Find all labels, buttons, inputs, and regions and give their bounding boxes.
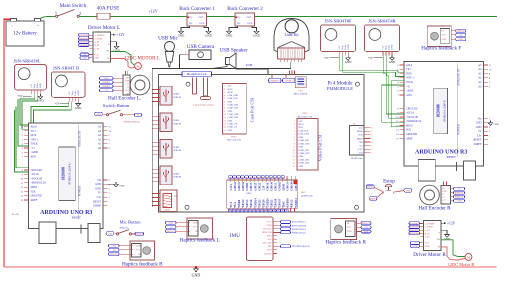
connector USB0 port (152, 86, 181, 105)
svg-text:5: 5 (294, 134, 295, 136)
svg-text:SCL0: SCL0 (228, 89, 233, 91)
chip ATMEGA328P of ARDUINO UNO R3 left (59, 147, 76, 201)
svg-text:Haptics feedback R: Haptics feedback R (325, 239, 366, 246)
wire +12V rail (green) (47, 15, 55, 17)
svg-text:IOR(B1D): IOR(B1D) (79, 37, 88, 40)
svg-text:GND: GND (389, 60, 396, 64)
svg-text:JSN-SR04T#R: JSN-SR04T#R (368, 19, 397, 24)
svg-text:Main Switch: Main Switch (60, 3, 87, 9)
ground under Buck Converter 1 left (178, 29, 185, 38)
net label IOR(B1) at Hall Encoder L. (100, 81, 114, 84)
ground symbol (389, 56, 396, 65)
svg-text:+5V: +5V (17, 94, 23, 98)
net label IOR pin 3 (79, 44, 90, 47)
svg-text:GND: GND (111, 246, 116, 248)
svg-text:Ma: Ma (106, 51, 109, 53)
svg-text:GND: GND (119, 184, 124, 187)
svg-text:GPI10: GPI10 (266, 182, 269, 190)
svg-text:10: 10 (224, 114, 226, 116)
svg-text:Buck Converter 2: Buck Converter 2 (227, 7, 263, 12)
svg-text:2: 2 (224, 89, 225, 91)
connector RJ45 ethernet (152, 190, 178, 212)
svg-text:CAM1_CP: CAM1_CP (228, 126, 238, 129)
ground at ARDUINO UNO R3 left power pins (108, 183, 117, 185)
net label GND at Hall Encoder R (454, 199, 465, 202)
svg-text:13: 13 (293, 159, 295, 161)
svg-text:GPI23: GPI23 (258, 199, 261, 207)
svg-text:1820688: 1820688 (62, 167, 66, 180)
svg-text:~AIN0: ~AIN0 (406, 90, 414, 93)
svg-text:+: + (37, 24, 39, 28)
svg-text:7: 7 (224, 105, 225, 107)
svg-text:GND: GND (345, 60, 352, 64)
connector power jack of ARDUINO UNO R3 left (88, 224, 100, 243)
svg-text:GND: GND (299, 166, 304, 168)
svg-text:GND: GND (299, 137, 304, 139)
svg-text:IOR(B0D): IOR(B0D) (410, 222, 419, 225)
svg-text:~T1: ~T1 (406, 85, 411, 88)
net label +7V (80, 53, 89, 56)
net label IOR pin 0 (409, 222, 420, 225)
svg-text:PI4MODULE: PI4MODULE (327, 86, 353, 91)
module Buck Converter 1 (179, 7, 215, 29)
svg-text:RER +=: RER += (246, 193, 254, 195)
svg-text:CAM_CLK: CAM_CLK (228, 97, 238, 100)
ground at ARDUINO UNO R3 right power pins (488, 122, 491, 124)
svg-text:1: 1 (55, 10, 57, 15)
svg-text:GND: GND (413, 246, 418, 248)
chip ATMEGA328P of ARDUINO UNO R3 right (434, 88, 448, 134)
wire mic to USB bus (168, 67, 170, 69)
motor 12DC MOTOR L (124, 57, 159, 70)
svg-text:POWER: POWER (78, 186, 82, 197)
svg-text:A_PWRM+: A_PWRM+ (425, 222, 436, 225)
svg-text:CAM1_DN3: CAM1_DN3 (299, 142, 310, 145)
svg-text:GND&Micro: GND&Micro (270, 80, 280, 82)
switch button contacts (103, 110, 135, 116)
svg-text:+5V: +5V (112, 250, 116, 252)
svg-text:GND: GND (457, 201, 462, 203)
svg-text:3.3v: 3.3v (477, 134, 482, 137)
net label at Switch Button right (135, 113, 142, 116)
svg-text:CAM1_DN1: CAM1_DN1 (228, 104, 239, 107)
net label IOR(B2) at Hall Encoder L. (100, 85, 114, 88)
ARDUINO UNO R3 right digital pins left (395, 64, 422, 140)
svg-text:1820688: 1820688 (437, 104, 441, 117)
wire driver L to motor (green) (111, 52, 135, 66)
svg-text:C2: C2 (442, 197, 444, 199)
svg-text:CAM_GP10: CAM_GP10 (299, 133, 310, 136)
svg-text:GND: GND (425, 246, 430, 248)
svg-text:GND: GND (494, 123, 499, 126)
svg-text:TX->: TX-> (31, 130, 37, 133)
fuse 40A FUSE (94, 6, 119, 20)
svg-text:~SS/OC1B: ~SS/OC1B (31, 177, 43, 180)
svg-text:GND: GND (364, 231, 369, 233)
svg-text:GND: GND (253, 34, 260, 38)
svg-text:15: 15 (293, 166, 295, 168)
encoder Hall Encoder R (420, 185, 440, 205)
svg-text:GND34: GND34 (295, 198, 298, 208)
svg-text:GND: GND (444, 237, 451, 241)
connector USB1 port (152, 113, 181, 132)
svg-text:GND: GND (82, 58, 87, 60)
svg-text:5V-2: 5V-2 (230, 201, 233, 207)
net label P9/3.3V(Pin1) at IMU (273, 220, 306, 223)
svg-text:VCC: VCC (442, 35, 447, 37)
junction GND bus dot (195, 266, 197, 268)
svg-text:T0/CK: T0/CK (31, 143, 38, 146)
svg-text:GPI12: GPI12 (291, 199, 294, 207)
svg-text:FSIA: FSIA (267, 235, 272, 238)
svg-text:3.3V1: 3.3V1 (230, 183, 233, 191)
svg-text:VCC: VCC (193, 227, 198, 229)
svg-text:↓: ↓ (281, 45, 282, 48)
svg-text:+5V: +5V (364, 227, 368, 229)
Hall Encoder R stubs to Arduino (444, 182, 447, 186)
net label IOR pin 1 (79, 37, 90, 40)
svg-text:GND: GND (267, 225, 272, 227)
svg-text:Haptics feedback F: Haptics feedback F (421, 45, 461, 52)
Hall Encoder R pin box (441, 186, 451, 206)
wire speaker to bus (211, 65, 227, 69)
connector SPI J2 header (350, 123, 373, 160)
ARDUINO UNO R3 right partition line (456, 63, 458, 157)
label Headphone jack (182, 72, 212, 77)
svg-text:GND14: GND14 (254, 198, 257, 208)
svg-text:4: 4 (224, 95, 225, 97)
svg-text:T0/CK: T0/CK (406, 81, 413, 84)
svg-text:8: 8 (224, 108, 225, 110)
net label +5V at Haptics feedback B (109, 248, 120, 251)
svg-text:IOR(B12): IOR(B12) (455, 196, 464, 199)
net label P9/GPIO15(Pin11) at IMU (273, 245, 310, 248)
svg-text:IOR(B1D): IOR(B1D) (410, 226, 419, 229)
svg-text:GND: GND (104, 78, 109, 80)
svg-text:+5V&Micro: +5V&Micro (284, 80, 294, 82)
net label IOR(B05) at Estop (369, 197, 378, 201)
net label IOR(A4) at Haptics feedback F (456, 29, 466, 32)
svg-text:GND: GND (37, 99, 44, 103)
net label +5V at Hall Encoder L. (100, 89, 114, 92)
svg-text:M: M (438, 246, 440, 248)
svg-text:GND: GND (299, 147, 304, 149)
svg-text:1: 1 (372, 152, 373, 154)
svg-text:AREF: AREF (31, 199, 38, 202)
svg-text:VCC: VCC (125, 90, 130, 92)
wire battery negative red down left edge (4, 19, 11, 267)
sensor JSN-SR04T#F (320, 19, 355, 56)
net label GND at Haptics feedback L (166, 221, 177, 224)
svg-text:SDA0: SDA0 (228, 91, 233, 94)
svg-text:OUT+: OUT+ (198, 16, 205, 19)
svg-text:SDA1: SDA1 (299, 123, 304, 126)
Hall Encoder L stubs up (126, 71, 128, 75)
svg-text:GPIO9: GPIO9 (271, 181, 274, 190)
svg-text:12DC MOTOR L: 12DC MOTOR L (124, 57, 159, 62)
net label GND at Hall Encoder L. (100, 77, 114, 80)
board ARDUINO UNO R3 right outline (404, 61, 483, 166)
net label P9/SCL(Pin28) at IMU (273, 224, 306, 227)
svg-text:RESET: RESET (447, 155, 456, 159)
svg-text:IN-: IN- (237, 22, 241, 25)
svg-text:RPi Cam CSI: RPi Cam CSI (227, 139, 240, 142)
svg-text:B_IN: B_IN (425, 233, 430, 235)
ARDUINO UNO R3 left bottom tick (80, 225, 82, 234)
svg-text:GND: GND (77, 90, 80, 95)
svg-text:GND: GND (168, 223, 173, 225)
svg-text:INT0: INT0 (31, 134, 37, 137)
svg-text:GPI24: GPI24 (262, 199, 265, 207)
svg-text:GPIO7: GPIO7 (279, 198, 282, 207)
svg-text:40-PIN arch: 40-PIN arch (301, 195, 314, 198)
svg-text:12v Battery: 12v Battery (13, 32, 37, 37)
svg-text:~MOSI/OC2A: ~MOSI/OC2A (406, 120, 422, 123)
svg-text:10: 10 (293, 150, 295, 152)
svg-text:GND: GND (476, 126, 482, 129)
svg-text:↓: ↓ (284, 45, 285, 48)
svg-text:ATMEGA 328P-U: ATMEGA 328P-U (68, 162, 72, 185)
net label GND at Estop (404, 189, 412, 193)
svg-text:12: 12 (224, 120, 226, 122)
wire JSN-L trig/echo to Arduino (green bundle) (20, 95, 35, 126)
svg-text:GPI14: GPI14 (242, 199, 245, 207)
module Haptics feedback R (325, 218, 366, 245)
wire Lidar to USB bus (152, 62, 290, 207)
svg-text:Haptics feedback L: Haptics feedback L (180, 237, 220, 244)
svg-text:CAM1_CN: CAM1_CN (228, 123, 238, 126)
module IMU MPU9250 (230, 217, 273, 261)
wire +12V rail fuse to right edge (green) (80, 15, 498, 17)
svg-text:AIn-0: AIn-0 (31, 126, 38, 129)
svg-text:ARDUINO UNO R3: ARDUINO UNO R3 (40, 210, 92, 216)
svg-text:ANALOG IN: ANALOG IN (457, 68, 461, 85)
svg-text:IOR(B3D): IOR(B3D) (410, 232, 419, 235)
svg-text:5V: 5V (478, 130, 481, 133)
svg-text:RESET: RESET (473, 139, 481, 142)
svg-text:GND: GND (347, 44, 350, 49)
svg-text:MOSI: MOSI (357, 138, 363, 140)
svg-text:GND: GND (75, 106, 82, 110)
svg-text:11: 11 (293, 153, 295, 155)
svg-text:IOR(A4): IOR(A4) (457, 30, 465, 33)
svg-text:ADC/AD0: ADC/AD0 (262, 242, 272, 245)
svg-text:GND: GND (96, 114, 101, 116)
svg-text:+7V: +7V (169, 227, 173, 229)
wire Arduino R pin loop (green verticals) (382, 85, 404, 122)
svg-text:5: 5 (372, 138, 373, 140)
net label +5V at Haptics feedback R (361, 226, 371, 229)
mic button contacts (115, 226, 136, 235)
svg-text:Hall Encoder R: Hall Encoder R (418, 206, 451, 212)
svg-text:11: 11 (224, 117, 226, 119)
svg-text:B_IN: B_IN (94, 45, 99, 47)
svg-text:GND: GND (406, 190, 411, 192)
svg-text:+5V: +5V (324, 56, 330, 60)
svg-text:IMU: IMU (230, 233, 240, 239)
motor 12DC Motor R (448, 254, 475, 267)
svg-text:ARDUINO UNO R3: ARDUINO UNO R3 (415, 150, 467, 156)
svg-text:~T1: ~T1 (31, 147, 36, 150)
net label GND at Haptics feedback R (361, 230, 371, 233)
svg-text:CAM1_DP1: CAM1_DP1 (299, 158, 310, 161)
svg-text:Buck Converter 1: Buck Converter 1 (179, 7, 215, 12)
svg-text:3: 3 (224, 92, 225, 94)
svg-text:GND: GND (108, 233, 113, 235)
net label IOR(A12) at Haptics feedback L (166, 230, 177, 233)
svg-text:GND: GND (476, 122, 482, 125)
svg-text:3.3V: 3.3V (262, 185, 265, 191)
svg-text:SCK: SCK (358, 135, 363, 137)
svg-text:VCC: VCC (347, 227, 352, 229)
svg-text:M: M (136, 65, 139, 69)
net label +7V at Haptics feedback L (166, 225, 177, 228)
wire battery positive to switch (green) (39, 16, 48, 20)
wire JSN-R trig/echo to Arduino R (green) (384, 56, 404, 114)
svg-text:RESET: RESET (72, 216, 81, 220)
svg-text:GND6: GND6 (238, 199, 241, 207)
svg-text:GND9: GND9 (246, 182, 249, 190)
wire Estop to net labels (red) (374, 187, 404, 198)
svg-text:Haptics feedback B: Haptics feedback B (122, 261, 163, 268)
svg-text:IOR(A2): IOR(A2) (110, 253, 118, 256)
net label IOR(B13) at Hall Encoder R (454, 191, 465, 194)
svg-text:M1: M1 (442, 188, 445, 190)
module Buck Converter 2 (227, 7, 263, 29)
svg-text:+3.3V: +3.3V (357, 149, 363, 151)
svg-text:GND20: GND20 (266, 198, 269, 208)
wire driver R to motor (green) (441, 240, 465, 257)
power flag +12V (441, 221, 456, 225)
net label GND at Mic Button (106, 232, 114, 236)
ground under Buck Converter 2 right (253, 29, 260, 38)
svg-text:CAM1_DP0: CAM1_DP0 (228, 116, 239, 119)
svg-text:MISO: MISO (31, 186, 38, 189)
svg-text:IOR(B1): IOR(B1) (103, 81, 111, 84)
switch Estop pushbutton (382, 178, 395, 193)
svg-text:~SS/OC1B: ~SS/OC1B (406, 116, 418, 119)
svg-text:IOR(B2): IOR(B2) (103, 85, 111, 88)
switch Switch Button (103, 103, 130, 108)
svg-text:IOR(A6): IOR(A6) (135, 233, 143, 236)
svg-text:ATMEGA 328P-U: ATMEGA 328P-U (443, 99, 447, 122)
svg-text:SCK: SCK (406, 129, 411, 132)
svg-text:9: 9 (224, 111, 225, 113)
switch Main Switch (55, 3, 87, 17)
svg-text:IOREF: IOREF (94, 205, 102, 208)
svg-text:~OC1A: ~OC1A (31, 173, 39, 176)
svg-text:Mic Button: Mic Button (119, 220, 141, 225)
svg-text:OUT-: OUT- (199, 22, 205, 25)
svg-text:C_IN: C_IN (94, 48, 99, 50)
net label +5V at Haptics feedback F (456, 33, 466, 36)
svg-text:C_IN: C_IN (425, 237, 430, 239)
svg-text:GND: GND (228, 120, 233, 122)
svg-text:14: 14 (224, 127, 226, 129)
svg-text:P9/3.3V(Pin1): P9/3.3V(Pin1) (292, 221, 306, 224)
svg-text:Cam Port CSI: Cam Port CSI (250, 97, 255, 122)
net label IOR(B04) at Estop (366, 185, 375, 189)
svg-text:+5V: +5V (54, 102, 60, 106)
sensor JSN-SR04T B (51, 66, 85, 102)
svg-text:USB-I0: USB-I0 (174, 96, 182, 99)
svg-text:MISO: MISO (406, 124, 413, 127)
svg-text:RESET: RESET (93, 200, 101, 203)
svg-text:M: M (467, 256, 470, 260)
svg-text:GND30: GND30 (287, 198, 290, 208)
connector power jack of ARDUINO UNO R3 right (464, 161, 476, 180)
svg-text:GPI27: GPI27 (254, 182, 257, 190)
svg-text:4: 4 (372, 142, 373, 144)
svg-text:PCL/2C2: PCL/2C2 (263, 228, 271, 230)
svg-text:15: 15 (224, 130, 226, 132)
svg-text:6: 6 (372, 135, 373, 137)
svg-text:CAM_CLK: CAM_CLK (299, 129, 309, 132)
svg-text:C2: C2 (127, 87, 129, 89)
svg-text:IOR(B2D): IOR(B2D) (410, 229, 419, 232)
svg-text:Video Port CSI: Video Port CSI (318, 134, 323, 161)
svg-text:GND: GND (95, 187, 101, 190)
svg-text:3.3v: 3.3v (96, 196, 101, 199)
svg-text:TX->: TX-> (406, 68, 412, 71)
svg-text:CPI/CLK0: CPI/CLK0 (406, 107, 418, 110)
driver chip (420, 220, 441, 250)
ground symbol (75, 101, 82, 110)
svg-text:CPI/CLK0: CPI/CLK0 (31, 169, 43, 172)
net label +7V (411, 241, 420, 244)
connector micro USB-C power (269, 71, 308, 96)
connector GPIO 40-pin header J8 (227, 176, 298, 212)
wire JSN-B trig/echo to Arduino (green bundle) (29, 102, 69, 134)
ARDUINO UNO R3 right POWER pins (457, 117, 491, 146)
svg-text:CAM1_DP2: CAM1_DP2 (299, 149, 310, 152)
net label GND (411, 245, 420, 248)
wire camera to USB bus (180, 55, 184, 69)
net label GND at Haptics feedback B (109, 244, 120, 247)
svg-text:GND: GND (299, 156, 304, 158)
svg-text:1: 1 (224, 86, 225, 88)
svg-text:~INT 1: ~INT 1 (31, 138, 39, 141)
svg-text:GPI18: GPI18 (250, 199, 253, 207)
camera USB Camera (183, 44, 215, 60)
net label IOR(A2) at Haptics feedback B (109, 253, 120, 256)
svg-text:GND: GND (228, 130, 233, 132)
svg-text:P9/SDA(Pin5): P9/SDA(Pin5) (292, 231, 306, 234)
svg-text:3: 3 (372, 145, 373, 147)
module Lidar Kit (274, 19, 309, 63)
audio jack sockets 3.5mm (193, 78, 215, 107)
connector USB of ARDUINO UNO R3 right (418, 160, 435, 182)
svg-text:Micro USB-B: Micro USB-B (294, 93, 308, 96)
svg-text:A_IN: A_IN (425, 229, 430, 232)
svg-text:3.3V: 3.3V (299, 121, 304, 123)
svg-text:SCL: SCL (267, 239, 272, 241)
svg-text:FSYNC: FSYNC (264, 253, 272, 255)
ground symbol (111, 42, 117, 44)
ground under Buck Converter 2 left (226, 29, 233, 38)
svg-text:12: 12 (293, 156, 295, 158)
svg-text:GPIO4: GPIO4 (242, 181, 245, 190)
wire USB net to Pi (236, 69, 268, 74)
svg-text:USB Speaker: USB Speaker (219, 48, 247, 54)
ARDUINO UNO R3 right bottom tick (456, 162, 458, 171)
ARDUINO UNO R3 left POWER pins (78, 179, 111, 208)
svg-text:RPi Video CSI: RPi Video CSI (298, 115, 312, 118)
svg-text:+5V: +5V (368, 56, 374, 60)
svg-text:IN+: IN+ (189, 16, 194, 19)
svg-text:Lidar Kit: Lidar Kit (284, 33, 299, 37)
svg-text:GND: GND (178, 34, 185, 38)
